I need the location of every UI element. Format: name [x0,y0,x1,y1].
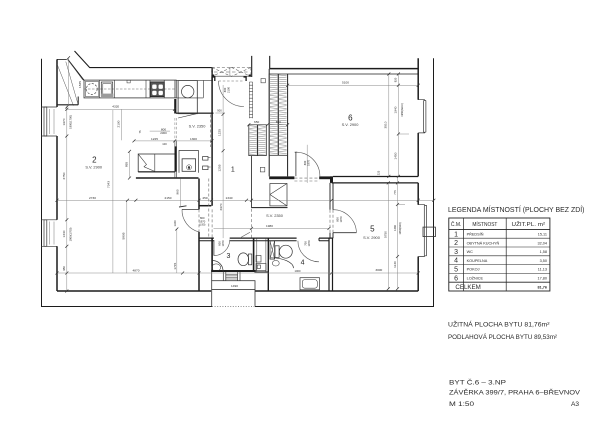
svg-text:100: 100 [162,142,167,146]
svg-text:5100: 5100 [342,81,349,85]
legend table [449,218,550,291]
svg-text:MÍSTNOST: MÍSTNOST [472,221,497,228]
svg-text:11,13: 11,13 [538,268,547,272]
svg-text:UŽITNÁ PLOCHA BYTU 81,76m²: UŽITNÁ PLOCHA BYTU 81,76m² [448,319,550,328]
wall boxes small electrical [203,157,211,170]
svg-text:5895: 5895 [121,232,125,239]
wall right outer face [433,58,435,306]
svg-text:1255: 1255 [218,164,222,171]
svg-text:1950(MAX): 1950(MAX) [400,103,404,117]
svg-text:480: 480 [62,266,66,271]
svg-text:2300: 2300 [160,131,167,135]
washbasin WC corner [213,260,224,271]
svg-text:960: 960 [176,189,180,194]
wall room6 left face [269,69,287,176]
svg-text:2730: 2730 [89,196,96,200]
svg-text:900: 900 [217,109,222,113]
svg-text:2970: 2970 [219,203,223,210]
svg-text:1225: 1225 [151,137,158,141]
svg-text:700: 700 [303,241,307,246]
svg-text:1970: 1970 [307,240,311,246]
wall top room6 inner [288,73,419,75]
svg-text:1970: 1970 [306,160,310,166]
dim room5 vertical [387,183,389,289]
svg-text:OBYTNÁ KUCHYŇ: OBYTNÁ KUCHYŇ [467,240,500,245]
kitchenette zigzag cabinet [138,154,175,172]
kitchen counter [84,80,212,98]
door WC leaf and arc [214,240,230,256]
svg-text:650: 650 [276,120,281,124]
glass block column [249,82,252,118]
svg-text:1970: 1970 [339,216,343,222]
bathtub [300,278,320,290]
svg-text:CELKEM: CELKEM [455,284,480,291]
svg-text:2150: 2150 [165,196,172,200]
svg-text:5: 5 [454,267,458,274]
kitchenette divider wall [175,141,177,178]
svg-text:2190: 2190 [117,120,121,127]
svg-text:7343: 7343 [107,181,111,188]
svg-text:1845: 1845 [78,81,82,88]
svg-text:600: 600 [218,241,222,246]
svg-text:S.V. 2900: S.V. 2900 [85,165,103,170]
dim 960 vertical [180,179,182,207]
door room6 leaf and arc [295,152,320,176]
dim 900 arrow kitchen [215,112,224,114]
svg-text:3: 3 [454,249,458,256]
svg-text:5: 5 [370,225,375,234]
table room names [467,232,500,281]
svg-text:800: 800 [336,217,340,222]
wall WC left [211,238,213,272]
stair landing box [212,272,255,307]
dim horizontal y200 [57,199,434,201]
svg-text:WC: WC [467,250,474,254]
svg-text:1980: 1980 [266,224,273,228]
door hall-room2 leaf and arc [182,209,199,232]
svg-text:17,80: 17,80 [537,277,547,281]
svg-text:LEGENDA MÍSTNOSTÍ (PLOCHY BEZ: LEGENDA MÍSTNOSTÍ (PLOCHY BEZ ZDÍ) [448,205,585,214]
bath door jamb [318,238,320,241]
vent square kitchen top [261,79,265,83]
wall room5 left [330,183,333,238]
door room5 leaf and arc [333,210,356,233]
window right room5 [418,205,435,257]
wall hatch chamfer [57,60,83,106]
wall nub at shaft top [199,205,212,207]
kitchen-hall door jambs [212,77,246,81]
svg-text:920: 920 [393,77,397,82]
outer walls [41,51,434,307]
svg-text:6: 6 [454,275,458,282]
svg-text:855: 855 [125,162,129,167]
svg-text:LOŽNICE: LOŽNICE [467,276,484,281]
svg-text:450: 450 [202,196,207,200]
door opening room6 dashed [294,178,319,181]
vent box on window [423,227,435,237]
svg-text:1: 1 [454,231,458,238]
svg-text:1140: 1140 [393,261,397,268]
dim vertical 2190 [121,109,123,140]
svg-text:5750: 5750 [384,231,388,238]
svg-text:1490: 1490 [231,284,238,288]
dim ticks left [65,56,70,292]
table row numbers [454,231,458,282]
door opening hall-room2 dashed [199,115,212,239]
svg-text:G: G [188,168,190,170]
svg-text:3000: 3000 [375,268,382,272]
washbasin bath [271,258,294,268]
interior walls [136,68,418,291]
window right room6 [418,100,426,133]
wall room6-corridor bottom double [333,176,418,178]
svg-text:2750: 2750 [62,172,66,179]
svg-text:800: 800 [303,160,307,165]
shaft pipes [254,238,268,272]
svg-text:4320: 4320 [112,105,119,109]
wall left inner face [56,59,58,291]
svg-text:PŘEDSÍŇ: PŘEDSÍŇ [467,232,484,237]
svg-text:4: 4 [301,260,305,267]
table header texts [451,220,545,228]
svg-text:2100: 2100 [227,87,231,93]
svg-text:M 1:50: M 1:50 [449,401,474,408]
svg-text:PODLAHOVÁ PLOCHA BYTU 89,53m²: PODLAHOVÁ PLOCHA BYTU 89,53m² [448,332,557,341]
svg-text:4: 4 [454,258,458,265]
bottom dotted outline at landing [212,306,255,308]
dim room6 vertical right [397,74,399,176]
bath room interior [270,241,320,290]
svg-text:S.V. 2350: S.V. 2350 [266,213,284,218]
svg-text:1: 1 [231,167,235,174]
svg-text:1340: 1340 [226,196,233,200]
svg-text:BYT Č.6 – 3.NP: BYT Č.6 – 3.NP [449,377,507,386]
svg-text:225: 225 [377,170,381,175]
door opening room5 dashed [330,210,333,233]
wall shaft right / bath left [267,238,269,291]
svg-text:1900(1700): 1900(1700) [69,115,73,129]
wall chamfer cap [57,58,67,60]
svg-text:1950(920): 1950(920) [398,222,402,234]
svg-text:KOUPELNA: KOUPELNA [467,259,488,263]
door small diagonal corridor [241,232,250,237]
window left W1 [41,107,57,136]
svg-text:32,04: 32,04 [537,241,547,245]
boiler / fridge box [176,81,214,118]
svg-text:775: 775 [393,190,397,195]
svg-text:UŽIT.PL. m²: UŽIT.PL. m² [512,220,546,228]
wall kitchen-hall vertical [211,68,213,206]
svg-text:1480: 1480 [393,225,397,231]
dim 855 vertical [129,151,131,178]
overhead niche dashed X box [212,67,251,76]
svg-text:650: 650 [254,120,259,124]
dim hall vertical 1225 [222,85,224,238]
svg-text:800: 800 [223,87,227,92]
svg-text:1225: 1225 [218,129,222,136]
dim corridor 1980 [214,227,330,229]
wall right inner face [417,58,419,291]
dim horizontal alcove 140 [134,140,212,142]
svg-text:1340: 1340 [173,220,177,226]
dim 4320 horizontal [67,108,175,110]
entrance threshold posts and steps [223,272,240,281]
stove [150,82,164,97]
svg-text:POKOJ: POKOJ [467,268,480,272]
svg-text:2: 2 [92,156,97,165]
svg-text:1340: 1340 [62,230,66,237]
WC interior [212,253,252,272]
svg-text:81,76: 81,76 [537,285,547,289]
svg-text:1715: 1715 [173,262,177,269]
svg-text:1970: 1970 [221,240,225,246]
wall left outer face [41,59,43,307]
svg-text:(L90): (L90) [199,223,205,227]
counter dividers [100,80,204,98]
dim 1715 vertical [176,229,178,273]
wall WC bottom / landing top [211,270,256,272]
dim left vertical column [67,58,69,291]
flue block B [269,74,287,155]
dim texts horizontal [89,81,382,289]
svg-text:3510: 3510 [384,121,388,128]
wall hall left lower thin [250,156,252,208]
dim 650 pair [249,124,288,126]
svg-text:ZÁVĚRKA 399/7, PRAHA 6–BŘEVNOV: ZÁVĚRKA 399/7, PRAHA 6–BŘEVNOV [449,387,581,396]
dim horizontal y273 [57,272,418,274]
svg-text:1450: 1450 [393,152,397,159]
svg-text:1000: 1000 [295,269,301,273]
sink circle dashed [85,82,99,97]
toilet WC [248,254,251,265]
hall wardrobe [251,184,287,208]
svg-text:2: 2 [454,240,458,247]
wall niche verticals above hall [252,56,270,77]
svg-text:3: 3 [227,253,231,260]
appliance box [101,82,112,96]
svg-text:75: 75 [138,130,142,133]
dashed door openings [199,115,333,239]
dim door room6 vline [306,145,308,183]
wall top room6 outer [270,68,419,70]
door bath leaf and arc [298,241,319,262]
wall chamfer bottom [57,97,78,105]
wall room2 lower right vertical [198,179,200,292]
wall bottom inner [57,290,418,292]
svg-text:15,11: 15,11 [538,233,547,237]
table values [537,233,547,281]
vent square hall [260,167,265,172]
wall top kitchen outer [75,51,212,68]
svg-text:1300: 1300 [190,137,197,141]
dim room6 5100 [288,84,419,86]
svg-text:Č.M.: Č.M. [451,221,462,228]
window left W2 [41,220,57,247]
dim texts rotated left [62,77,404,271]
counter centerline dashed [84,88,176,90]
svg-text:S.V. 2900: S.V. 2900 [363,235,381,240]
wall WC top / corridor south wall [199,237,333,239]
dimension lines [56,56,436,292]
svg-text:A3: A3 [571,401,579,408]
dim room6 vertical 3510 [388,74,390,176]
dim vertical 5895 [126,200,128,273]
svg-text:S.V. 2900: S.V. 2900 [342,122,360,127]
door kitchen-hall leaf arc [219,81,245,107]
svg-text:S.V. 2350: S.V. 2350 [189,124,207,129]
wall chamfer inner diagonal [68,59,84,80]
svg-text:3,50: 3,50 [540,259,547,263]
wall kitchenette alcove bottom [136,177,199,179]
wall WC right / shaft left [253,238,255,272]
svg-text:1970: 1970 [62,118,66,125]
toilet bath [275,246,279,258]
dim vertical 7343 [112,110,114,273]
kitchenette G-box [179,151,198,173]
svg-text:1940: 1940 [393,106,397,113]
flue block A [249,125,266,156]
svg-text:4870: 4870 [133,269,140,273]
wall bottom outer [41,306,434,308]
svg-text:1,58: 1,58 [540,250,547,254]
washer with X [270,241,275,259]
svg-text:1900(1700): 1900(1700) [69,228,73,242]
